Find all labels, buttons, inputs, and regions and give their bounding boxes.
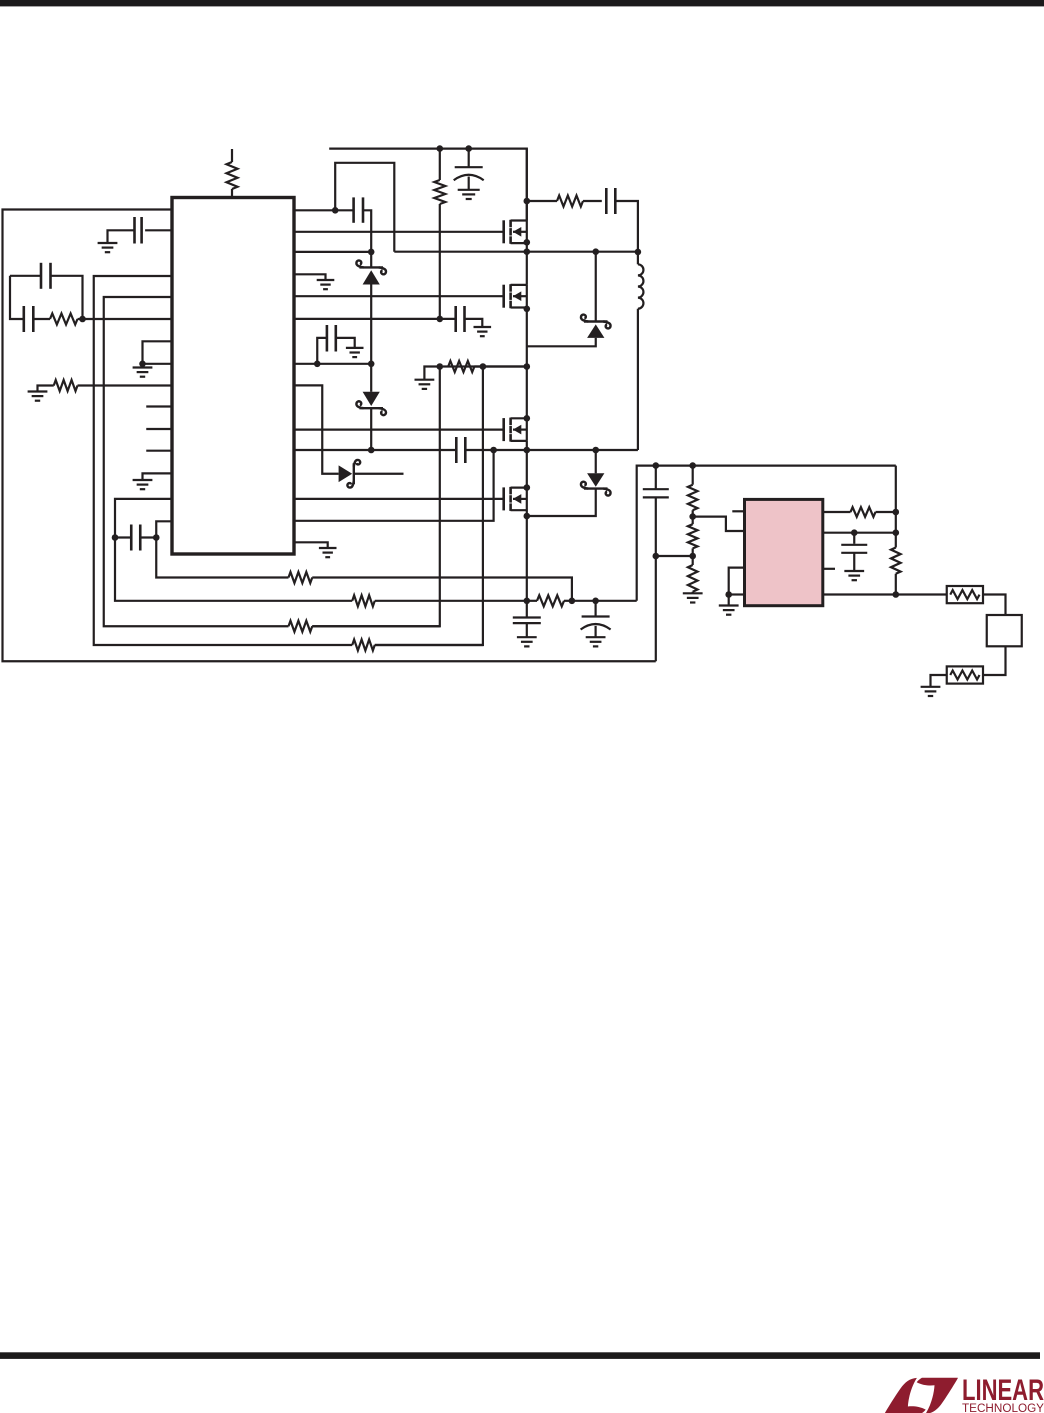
node C-in2 top bbox=[592, 598, 599, 605]
transistor Q1 (top buck) bbox=[504, 220, 527, 244]
node D2 anode (SW2) bbox=[592, 447, 599, 454]
wire Vosense loop (outer) bbox=[3, 210, 656, 662]
wire pin-276 riser bbox=[94, 276, 353, 645]
inductor L1 bbox=[638, 252, 644, 450]
wire ITH pin bbox=[294, 385, 339, 473]
node Rsense right bbox=[569, 598, 576, 605]
wire pin-297 riser bbox=[104, 297, 289, 626]
wire Q1 drain to VIN bbox=[526, 149, 528, 221]
resistor R-sense-filter bbox=[448, 361, 474, 372]
wire snubber to SW1 bbox=[615, 201, 638, 252]
ground (C-INTVCC) bbox=[346, 348, 364, 357]
node VIN-R junction bbox=[437, 145, 444, 152]
ground (C-230) bbox=[98, 243, 118, 252]
node divider tap1 bbox=[689, 513, 696, 520]
pin stub U1 left-406 bbox=[146, 405, 172, 407]
capacitor C-g2 (polarized) bbox=[581, 601, 611, 637]
wire pin-521 loop bbox=[156, 521, 172, 537]
pin stub U1 left-429 bbox=[146, 428, 172, 430]
ground (R-385) bbox=[28, 392, 48, 401]
wire BOOST1 pin bbox=[294, 209, 354, 211]
wire U2 pin r1 bbox=[823, 511, 851, 513]
resistor R-u2b bbox=[891, 533, 901, 595]
node SW2-sense bbox=[490, 447, 497, 454]
wire BG1 (U1 to Q3 gate) bbox=[294, 429, 504, 431]
pin stub U1 left-451 bbox=[146, 450, 172, 452]
pin U2 left-4 (gnd) bbox=[729, 593, 745, 595]
wire D5 cathode stub bbox=[354, 473, 404, 475]
wire sense line bbox=[443, 365, 527, 367]
wire cap bottom tap bbox=[656, 555, 693, 557]
resistor R-rail (VIN divider) bbox=[434, 149, 445, 320]
resistor R-div3 bbox=[688, 556, 698, 593]
node u2 rail mid bbox=[893, 529, 900, 536]
ground (pin right 274) bbox=[317, 280, 335, 289]
wire lineA to Rsense bbox=[312, 578, 572, 601]
node VIN-cap junction bbox=[465, 145, 472, 152]
wire pin-230 cap bbox=[145, 229, 172, 231]
resistor R-lineB bbox=[352, 595, 375, 606]
wire pin-364 bbox=[143, 363, 173, 365]
node pin-364 gnd bbox=[139, 361, 146, 368]
ground (C-g1) bbox=[517, 637, 537, 646]
capacitor C-EXTVCC bbox=[456, 306, 465, 332]
wire sense- riser bbox=[312, 367, 440, 627]
wire Rsense right to Vout loop bbox=[572, 600, 637, 602]
ground (C-EXTVCC) bbox=[474, 327, 492, 336]
capacitor C-u2 bbox=[841, 533, 867, 571]
diode D5 (pointing right) bbox=[339, 460, 361, 488]
node SW2 junction bbox=[524, 447, 531, 454]
capacitor C-VIN (polarized) bbox=[454, 149, 484, 190]
wire RT1 to load bbox=[983, 595, 1006, 616]
wire output riser bbox=[637, 466, 896, 601]
capacitor C-fb (top) bbox=[10, 263, 83, 319]
wire VIN rail bbox=[329, 149, 527, 221]
capacitor C-INTVCC bbox=[317, 325, 354, 364]
node EXTVCC-rail bbox=[437, 316, 444, 323]
node zener-INTVCC bbox=[368, 361, 375, 368]
capacitor CB1 (boost 1) bbox=[354, 197, 363, 222]
bottom black bar bbox=[0, 1352, 1040, 1359]
wire C-EXTVCC to ground bbox=[465, 319, 483, 327]
capacitor C-g1 bbox=[513, 601, 541, 637]
capacitor C-230 bbox=[108, 217, 142, 244]
wire lineC mid bbox=[312, 625, 440, 627]
node Vout-cap bbox=[653, 462, 660, 469]
wire U2 output bbox=[823, 593, 947, 595]
ground (divider) bbox=[683, 593, 703, 602]
node sense-resistor right bbox=[524, 363, 531, 370]
node Q1 source bbox=[524, 239, 531, 246]
node Q4 drain bbox=[524, 484, 531, 491]
wire BOOST2 pin bbox=[294, 449, 456, 451]
node snubber tap bbox=[524, 198, 531, 205]
resistor R-div1 bbox=[688, 466, 698, 517]
ground hook (pin right 542) bbox=[294, 542, 328, 547]
diode D1 (SW1 catch) bbox=[527, 252, 611, 347]
zener D4 (INTVCC to BOOST2) bbox=[356, 364, 386, 450]
wire SW2 node bbox=[465, 449, 638, 451]
wire pin-499 loop bbox=[115, 499, 172, 538]
wire SENSE2 riser bbox=[294, 450, 494, 521]
resistor R-385 to ground bbox=[38, 380, 173, 391]
wire Q1 source to SW1 bbox=[526, 243, 528, 285]
thermistor RT2 (boxed) bbox=[947, 666, 983, 683]
resistor R-u2a bbox=[851, 507, 876, 517]
resistor R-lineC bbox=[289, 621, 313, 632]
wire R-u2a to rail bbox=[876, 511, 896, 513]
node sense left bbox=[437, 363, 444, 370]
capacitor C-out bbox=[643, 466, 669, 662]
node u2 rail top bbox=[893, 509, 900, 516]
ground (sense) bbox=[415, 380, 435, 389]
node BOOST1 jumper bbox=[332, 207, 339, 214]
ground (U2) bbox=[719, 595, 739, 615]
node D1 anode (SW1) bbox=[592, 248, 599, 255]
ground (C-g2) bbox=[586, 637, 606, 646]
node sense right bbox=[480, 363, 487, 370]
wire fb to pin-319 bbox=[83, 318, 173, 320]
Linear Technology logo bbox=[885, 1374, 1044, 1413]
node U2 ground bbox=[725, 591, 732, 598]
wire pin-341 loop bbox=[143, 341, 173, 364]
pin stub U2 right-3 bbox=[823, 568, 835, 570]
capacitor CB2 (boost 2) bbox=[456, 437, 465, 463]
node C-ss right bbox=[153, 534, 160, 541]
wire TG1 (U1 to Q1 gate) bbox=[294, 231, 504, 233]
wire RT2 to ground bbox=[931, 675, 947, 686]
pin stub U2 left-1 bbox=[732, 510, 744, 512]
ground (pin-364) bbox=[133, 364, 153, 377]
wire EXTVCC pin bbox=[294, 318, 456, 320]
svg-text:TECHNOLOGY: TECHNOLOGY bbox=[962, 1403, 1044, 1413]
controller IC U1 bbox=[172, 198, 294, 555]
transistor Q2 (bottom buck) bbox=[504, 284, 527, 308]
wire fb left leg bbox=[10, 276, 24, 319]
ground hook (pin right 274) bbox=[294, 274, 326, 279]
node u2 rail bottom bbox=[893, 591, 900, 598]
wire u2 rail upper bbox=[895, 466, 897, 533]
node Q3 drain bbox=[524, 415, 531, 422]
wire sense+ riser bbox=[375, 367, 483, 646]
node SW1 junction bbox=[524, 248, 531, 255]
transistor Q4 (top boost) bbox=[504, 487, 527, 511]
node Q4 source bbox=[524, 513, 531, 520]
wire sense line B bbox=[115, 538, 352, 601]
wire lineB to Rsense bbox=[375, 600, 527, 602]
capacitor C-ss bbox=[115, 525, 156, 551]
wire Q4 source down to Rsense bbox=[526, 510, 528, 601]
wire tap to U2 bbox=[693, 517, 745, 531]
node inductor top (SW1) bbox=[635, 249, 642, 256]
resistor R-snubber bbox=[527, 196, 602, 207]
node zener-BOOST2 bbox=[368, 447, 375, 454]
ground (C-VIN) bbox=[458, 190, 480, 199]
wire sense line A bbox=[156, 538, 288, 578]
wire INTVCC pin bbox=[294, 363, 371, 365]
wire Q2 source down bbox=[526, 308, 528, 419]
wire load to RT2 bbox=[983, 646, 1006, 675]
load box J1 bbox=[987, 615, 1022, 646]
ground (pin right 542) bbox=[319, 548, 337, 557]
zener D3 (SW1 to INTVCC) bbox=[356, 252, 386, 364]
capacitor C-fb2 + resistor R-fb (bottom) bbox=[24, 306, 83, 332]
diode D2 (SW2 catch) bbox=[527, 450, 611, 516]
top black bar bbox=[0, 0, 1044, 6]
wire Q3 source to SW2 bbox=[526, 441, 528, 488]
wire lineD mid bbox=[375, 644, 483, 646]
node divider top bbox=[689, 462, 696, 469]
node INTVCC-cap bbox=[314, 361, 321, 368]
resistor R-lineD bbox=[352, 640, 375, 651]
ground (C-u2) bbox=[844, 571, 864, 580]
capacitor C-snubber bbox=[606, 188, 615, 214]
transistor Q3 (bottom boost) bbox=[504, 418, 527, 442]
wire SW1 node bbox=[394, 251, 638, 253]
wire TG2 (U1 to Q2 gate) bbox=[294, 295, 504, 297]
node zener-SW1 bbox=[368, 249, 375, 256]
pin U2 left-3 stub bbox=[729, 568, 745, 595]
wire BG2 (U1 to Q4 gate) bbox=[294, 498, 504, 500]
ground hook (pin-473) bbox=[143, 473, 173, 479]
wire sense to Q-chain bbox=[474, 365, 526, 367]
node divider tap2 bbox=[689, 553, 696, 560]
node Vout-cap bottom tap bbox=[653, 553, 660, 560]
wire SENSE1 pin bbox=[294, 251, 371, 253]
node Q2 source bbox=[524, 306, 531, 313]
ground (RT2) bbox=[921, 687, 941, 696]
ground hook (sense) bbox=[424, 367, 439, 380]
resistor R-lineA bbox=[289, 572, 313, 583]
ground (pin-473) bbox=[133, 480, 153, 489]
node u2 cap tap bbox=[851, 529, 858, 536]
wire BOOST1-SW1 jumper loop bbox=[335, 163, 394, 252]
wire U2 pin r2 bbox=[823, 532, 896, 534]
node C-ss left bbox=[112, 534, 119, 541]
resistor R-top (above U1) bbox=[227, 149, 238, 197]
resistor R-div2 bbox=[688, 517, 698, 556]
thermistor RT1 (boxed) bbox=[947, 586, 983, 603]
node fb junction bbox=[79, 316, 86, 323]
wire CB1 to zener chain bbox=[363, 210, 371, 252]
resistor RSENSE bbox=[527, 595, 572, 606]
node Rsense left bbox=[524, 598, 531, 605]
IC U2 (pink) bbox=[745, 499, 823, 605]
